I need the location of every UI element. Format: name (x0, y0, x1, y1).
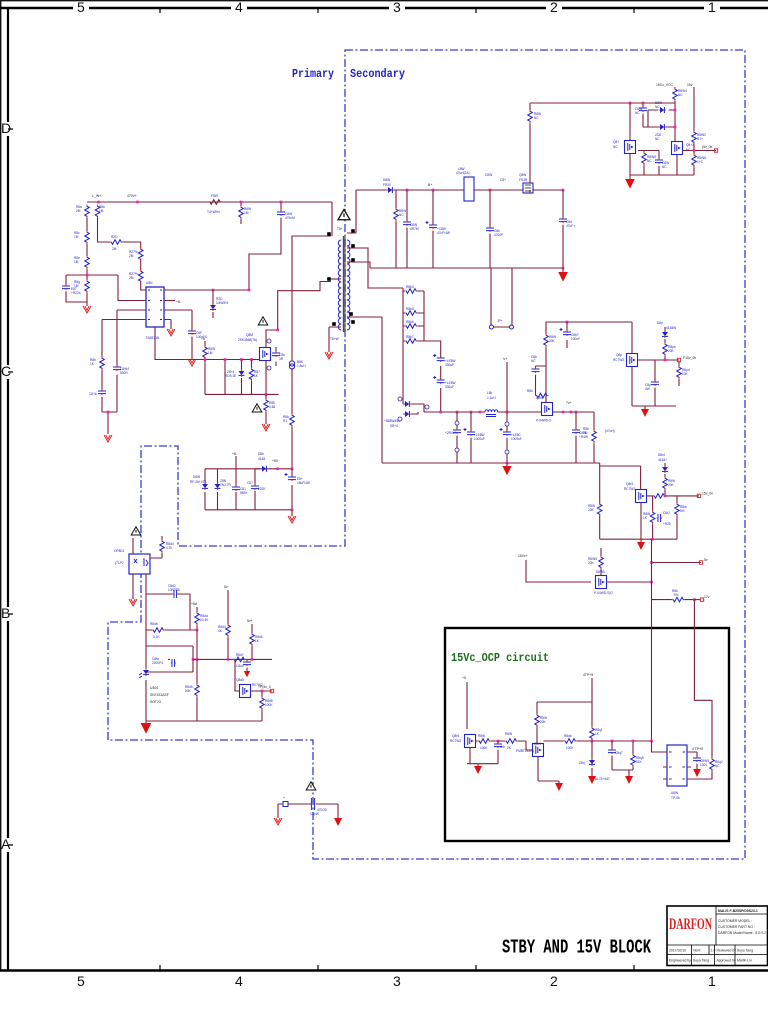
node mid gnd (506, 462, 509, 465)
border bottom line (0, 969, 768, 972)
svg-text:Secondary: Secondary (350, 67, 405, 81)
svg-text:5: 5 (77, 973, 85, 989)
capacitor C8q7 (612, 741, 629, 770)
svg-text:C: C (1, 363, 11, 379)
circled pin marks q801 (267, 339, 271, 343)
node rail d (479, 411, 482, 414)
node cgate (642, 102, 645, 105)
wire opto main vertical (145, 574, 147, 721)
svg-text:P-04WD-S)G: P-04WD-S)G (594, 591, 613, 595)
svg-text:NC: NC (534, 116, 539, 120)
node snubber gnd (291, 509, 294, 512)
ground ocp left (474, 766, 482, 774)
capacitor C8m1 (456, 412, 458, 463)
svg-text:2200P4: 2200P4 (152, 661, 163, 665)
svg-text:Q8r1: Q8r1 (534, 742, 541, 746)
svg-text:1M: 1M (74, 235, 79, 239)
wire ocp left rail (467, 764, 498, 766)
svg-text:100K: 100K (265, 703, 273, 707)
wire diode pair loop (643, 110, 675, 127)
transformer core (343, 236, 345, 332)
svg-text:Q8d5: Q8d5 (236, 678, 244, 682)
capacitor C8W4 (113, 366, 121, 371)
title block frame (667, 906, 768, 966)
svg-text:18uF/4W: 18uF/4W (297, 481, 310, 485)
svg-text:NC: NC (613, 145, 618, 149)
wire gate drive net (536, 322, 549, 403)
svg-text:Reviewed by: Reviewed by (717, 949, 737, 953)
regulator Q8W small (523, 183, 533, 193)
resistor R27b (138, 270, 143, 284)
capacitor C8c4 (658, 151, 660, 176)
warning triangle sense (252, 404, 262, 412)
ground ocp ic (693, 769, 701, 777)
ground xcap open (274, 818, 282, 825)
svg-text:T4+WH4: T4+WH4 (207, 210, 220, 214)
svg-text:R8db: R8db (150, 622, 158, 626)
capacitor C8b7 (566, 322, 568, 348)
resistor R8W 1M (204, 341, 206, 394)
svg-text:10K: 10K (682, 372, 689, 376)
wire IC pin8 net (164, 289, 249, 291)
svg-text:1: 1 (708, 0, 716, 15)
mosfet Q8W pass (542, 403, 553, 416)
svg-text:D8r4: D8r4 (658, 453, 665, 457)
capacitor C8fa (171, 659, 176, 667)
svg-text:500R: 500R (120, 371, 128, 375)
wire secondary lower rail (370, 267, 563, 269)
svg-text:RD9.1E: RD9.1E (225, 374, 236, 378)
svg-text:47uF+: 47uF+ (566, 224, 575, 228)
pin xcap (283, 802, 288, 807)
node q out (261, 690, 264, 693)
wire c2 output (647, 495, 700, 497)
node src rail (265, 393, 268, 396)
svg-text:R8b7: R8b7 (406, 335, 414, 339)
svg-text:D8b: D8b (258, 452, 264, 456)
resistor R8c4 (638, 151, 659, 176)
resistor R8W bus (240, 202, 242, 224)
svg-text:RC7W2: RC7W2 (450, 739, 461, 743)
resistor R8F fusible (209, 200, 222, 205)
resistor R8sec bleed (395, 190, 397, 268)
svg-text:470/25: 470/25 (317, 808, 327, 812)
resistor R8s1 (403, 290, 424, 292)
svg-text:15Vc+: 15Vc+ (518, 554, 528, 558)
svg-text:5v: 5v (704, 558, 708, 562)
transistor Q8c1 (625, 141, 636, 154)
capacitor E8m2 (470, 412, 472, 463)
svg-text:7N2.7R: 7N2.7R (220, 483, 232, 487)
svg-text:JP+: JP+ (497, 319, 503, 323)
warning triangle opto (131, 527, 141, 535)
ground ocp mid (625, 776, 633, 784)
ground cd4 small (244, 671, 250, 677)
svg-text:NC: NC (662, 165, 667, 169)
node gate2 (240, 358, 243, 361)
transformer pin 1 (327, 277, 331, 281)
node ocp a (497, 740, 500, 743)
svg-text:2M: 2M (129, 254, 134, 258)
wire base q8d5 (235, 659, 240, 691)
svg-text:2M: 2M (112, 247, 117, 251)
resistor R8d8 (261, 691, 263, 721)
svg-text:V+: V+ (503, 357, 507, 361)
svg-text:C87: C87 (247, 481, 253, 485)
svg-text:C8+b: C8+b (89, 392, 97, 396)
svg-text:FS3R: FS3R (519, 178, 528, 182)
wire ocp fet source (469, 748, 471, 764)
resistor R8m (544, 334, 549, 348)
resistor R8r2 (664, 474, 666, 496)
svg-text:C8r2: C8r2 (663, 511, 670, 515)
wire zener branch (212, 290, 214, 318)
wire c1 output (638, 359, 680, 361)
svg-text:R8ab: R8ab (564, 734, 572, 738)
resistor R8c2 (692, 131, 697, 145)
svg-text:1+C: 1+C (697, 160, 704, 164)
node gate1 (224, 358, 227, 361)
svg-text:+5: +5 (462, 676, 466, 680)
svg-text:2: 2 (550, 973, 558, 989)
wire primary bottom rail (205, 393, 279, 395)
svg-text:(47uH): (47uH) (605, 429, 615, 433)
svg-text:470V+: 470V+ (127, 194, 137, 198)
wire xcap row (278, 803, 338, 805)
wire snubber leg3 (235, 469, 237, 510)
resistor bank rail left (403, 288, 424, 404)
capacitor E8 electrolytic (291, 469, 293, 510)
wire ocp to ic (652, 741, 668, 752)
wire rdb row (146, 629, 197, 631)
IC U8q comparator (667, 745, 687, 786)
primary/secondary isolation dash-dot boundary (108, 50, 745, 859)
capacitor C8m4 (575, 412, 577, 463)
resistor R8s4 (403, 340, 424, 342)
svg-text:+8: +8 (176, 300, 180, 304)
ground c2 (640, 539, 642, 542)
svg-text:3: 3 (393, 0, 401, 15)
svg-text:D8p: D8p (657, 321, 663, 325)
resistor R8q5 (629, 741, 633, 776)
svg-text:+R4W: +R4W (579, 435, 588, 439)
svg-text:U304: U304 (150, 686, 158, 690)
wire c1 source (631, 367, 633, 407)
svg-text:STBY AND 15V BLOCK: STBY AND 15V BLOCK (502, 937, 651, 959)
resistor R8vcc (528, 110, 533, 124)
capacitor C8s (275, 347, 277, 366)
svg-text:4TP+5: 4TP+5 (583, 673, 593, 677)
svg-text:NC: NC (531, 359, 536, 363)
transformer pin 3 (327, 232, 331, 236)
wire q1 source (629, 154, 631, 176)
transformer pin 5 (351, 320, 355, 324)
transformer warning triangle (338, 210, 350, 220)
ground c1 (644, 406, 646, 409)
pin stub 5v b (251, 624, 253, 659)
inductor L86 (485, 410, 498, 412)
resistor R8c (85, 231, 90, 245)
svg-text:15Vc_OCP circuit: 15Vc_OCP circuit (451, 652, 549, 665)
wire gate to rail tie (224, 360, 226, 395)
svg-text:1: 1 (708, 973, 716, 989)
svg-text:1000uF: 1000uF (511, 437, 522, 441)
resistor R8t gate (600, 548, 602, 576)
wire c2 source (640, 503, 642, 540)
wire R27 to IC pin1 (141, 283, 146, 290)
svg-text:15Cc_VCC: 15Cc_VCC (656, 83, 674, 87)
wire rq2 bottom (691, 771, 712, 779)
capacitor C8m gate (532, 368, 540, 373)
svg-text:RF-06+4TS: RF-06+4TS (190, 480, 207, 484)
ground mid rail (506, 463, 508, 466)
ground ocp zener (588, 776, 596, 784)
inductor L800 (464, 177, 474, 201)
svg-text:Martin Lin: Martin Lin (737, 959, 752, 963)
IC U801 body (146, 287, 164, 327)
wire opto right top to R8d (150, 536, 162, 558)
node rail g (575, 411, 578, 414)
svg-text:(TLP2: (TLP2 (115, 561, 124, 565)
svg-text:D8W5: D8W5 (596, 570, 605, 574)
wire ocp q collector (536, 702, 538, 744)
wire gate drive (155, 327, 259, 360)
wire source path (265, 361, 267, 395)
wire opto bottom left (132, 574, 134, 599)
node L_IN+ (97, 201, 100, 204)
capacitor C8pW (311, 798, 314, 810)
svg-text:+8: +8 (232, 452, 236, 456)
node sense rail (107, 411, 110, 414)
diode D8W (202, 483, 208, 490)
svg-text:4148: 4148 (258, 457, 265, 461)
capacitor C8W bus (249, 202, 281, 290)
svg-text:C8pW: C8pW (310, 812, 319, 816)
svg-text:C8q7: C8q7 (615, 751, 623, 755)
svg-text:5v: 5v (224, 585, 228, 589)
resistor R8pb (664, 339, 666, 360)
resistor R8k (290, 414, 295, 428)
wire long vertical B (694, 600, 712, 758)
node c1 out (664, 359, 667, 362)
mosfet Q8t (596, 576, 607, 589)
svg-text:47uF/4W: 47uF/4W (437, 231, 450, 235)
wire vcc top run (530, 102, 675, 104)
svg-text:20K: 20K (540, 720, 547, 724)
transistor Q8c2 (672, 142, 683, 155)
node ocp b (591, 740, 594, 743)
pin stub 8d (196, 607, 198, 630)
svg-text:20.4K: 20.4K (200, 618, 209, 622)
transistor Q8r (636, 490, 647, 503)
svg-text:PMBT2222A: PMBT2222A (516, 749, 535, 753)
svg-text:10R2R5: 10R2R5 (168, 588, 180, 592)
pin 5v (699, 561, 702, 564)
wire q2 source (676, 155, 678, 176)
transistor Q8r1 (533, 744, 544, 757)
wire c2 inner right (676, 496, 678, 539)
wire clamp feed (292, 236, 331, 469)
wire 5v output (652, 562, 702, 564)
svg-text:15v: 15v (687, 83, 693, 87)
node c2 rail (651, 538, 654, 541)
ground sense2 open (262, 424, 270, 431)
wire long vertical A (651, 539, 653, 741)
zener D8q (591, 741, 593, 776)
svg-text:20K: 20K (668, 483, 675, 487)
mosfet Q801 (260, 348, 271, 361)
wire c2 left leg (599, 466, 601, 539)
resistor R8d7 series (232, 658, 233, 660)
svg-text:5.1K: 5.1K (153, 635, 160, 639)
svg-text:4: 4 (235, 0, 243, 15)
wire c2 bottom rail (600, 538, 677, 540)
svg-text:P-04WD-S: P-04WD-S (536, 419, 551, 423)
node sec1 (406, 189, 409, 192)
ground opto open (129, 599, 137, 606)
svg-text:0.68: 0.68 (269, 405, 275, 409)
svg-text:RC7W2: RC7W2 (624, 487, 635, 491)
wire rdd lower (196, 630, 198, 659)
svg-text:47uH(2A): 47uH(2A) (456, 171, 470, 175)
svg-text:CUSTOMER PART NO :: CUSTOMER PART NO : (718, 925, 755, 929)
svg-text:15v_0n: 15v_0n (702, 492, 713, 496)
resistor R8a (85, 205, 90, 219)
svg-text:FA5571N: FA5571N (146, 336, 160, 340)
svg-text:NC: NC (678, 93, 683, 97)
wire secondary top rail (356, 189, 563, 191)
svg-text:R2D: R2D (111, 235, 118, 239)
svg-text:C8W: C8W (485, 173, 492, 177)
zener ZD8N (215, 483, 221, 490)
resistor R8E sense (265, 394, 267, 424)
wire q1 drop (629, 103, 631, 140)
wire pin5 branch (164, 320, 171, 330)
ground fb main (145, 721, 147, 723)
svg-text:R8r6: R8r6 (478, 734, 485, 738)
svg-text:3: 3 (393, 973, 401, 989)
svg-text:D8W: D8W (193, 475, 200, 479)
svg-text:L_IN+: L_IN+ (92, 194, 101, 198)
ground secondary rail (562, 268, 564, 272)
jumper JP+ (491, 268, 512, 327)
border ticks (8, 8, 634, 970)
node snubber right (276, 468, 279, 471)
node ocp long join (650, 740, 653, 743)
svg-text:1.8uH: 1.8uH (297, 364, 306, 368)
resistor R8s2 (403, 312, 424, 314)
ground ic open (167, 329, 175, 336)
svg-text:3R: 3R (279, 357, 284, 361)
wire ocp top run (537, 701, 592, 703)
diode D8c2 (659, 124, 666, 130)
border left line (7, 8, 9, 970)
wire ocp fet drop (466, 682, 468, 729)
diode D8c top (659, 107, 666, 113)
wire snubber left leg (204, 469, 206, 510)
svg-text:CUSTOMER MODEL :: CUSTOMER MODEL : (718, 919, 752, 923)
wire pin6 branch (164, 310, 192, 331)
resistor R27a (138, 248, 143, 262)
node sec3 (562, 189, 565, 192)
svg-text:R8b5: R8b5 (406, 307, 414, 311)
wire q8d5 out (251, 690, 273, 692)
IC U801 pin stubs (143, 290, 167, 320)
svg-text:2M: 2M (99, 209, 104, 213)
node out join (693, 149, 696, 152)
svg-text:R1+: R1+ (697, 137, 703, 141)
wire cap row (146, 594, 190, 630)
resistor R8r left (597, 503, 602, 517)
svg-text:2: 2 (550, 0, 558, 15)
svg-text:Approved by: Approved by (717, 959, 736, 963)
resistor R8m3 (593, 412, 595, 463)
capacitor C8F (188, 330, 196, 335)
svg-text:+2R4W: +2R4W (445, 431, 456, 435)
node ocp c (611, 740, 614, 743)
wire left resistor chain (86, 218, 88, 302)
svg-text:A: A (1, 836, 11, 852)
capacitor C8r5 (497, 741, 499, 764)
resistor R8b (95, 205, 100, 219)
svg-text:F15v_0k: F15v_0k (683, 356, 696, 360)
svg-text:T8+W: T8+W (330, 337, 339, 341)
svg-text:7v+: 7v+ (566, 401, 572, 405)
resistor R8d4 (226, 624, 231, 638)
warning triangle xcap (306, 782, 316, 790)
svg-text:17v: 17v (704, 595, 710, 599)
svg-text:FR30: FR30 (383, 183, 391, 187)
svg-text:NC: NC (715, 764, 720, 768)
pin 15v_0k out (677, 358, 680, 361)
svg-text:1M: 1M (244, 211, 249, 215)
svg-text:+R224: +R224 (71, 291, 81, 295)
15Vc_OCP circuit box (445, 628, 729, 841)
svg-text:5%: 5% (674, 593, 679, 597)
resistor R8c1 (674, 87, 676, 88)
svg-text:RC7W2: RC7W2 (613, 358, 624, 362)
svg-text:R8b6: R8b6 (406, 320, 414, 324)
capacitor C8+b (98, 390, 106, 395)
node sec2 (489, 189, 492, 192)
node rdd mid (196, 658, 199, 661)
capacitor C8d4 (246, 659, 248, 671)
svg-text:T8+: T8+ (337, 227, 343, 231)
svg-text:+8V: +8V (272, 459, 279, 463)
resistor R8d5 (196, 659, 198, 721)
transistor Q8d5 (240, 685, 251, 698)
wire right bottom rail (630, 174, 694, 176)
transformer pin 4 (332, 322, 336, 326)
svg-text:OP8D1: OP8D1 (114, 549, 125, 553)
optocoupler OP801 (129, 554, 150, 574)
capacitor E8m3 (506, 412, 508, 463)
wire fb mid row (193, 658, 272, 660)
svg-text:Q8p: Q8p (616, 353, 622, 357)
ground c8f open (191, 337, 193, 359)
svg-text:2017/10/10: 2017/10/10 (669, 949, 686, 953)
svg-text:NC: NC (399, 213, 404, 217)
ground sense open (104, 435, 112, 442)
resistor R8r6 (478, 739, 491, 744)
svg-text:470nM: 470nM (285, 216, 295, 220)
wire snubber leg2 (217, 469, 219, 510)
node chain junction (86, 274, 89, 277)
capacitor E8s2 (433, 376, 445, 384)
resistor R8s3 (403, 325, 424, 327)
node rail a (439, 411, 442, 414)
wire pin7 stub (164, 300, 175, 302)
